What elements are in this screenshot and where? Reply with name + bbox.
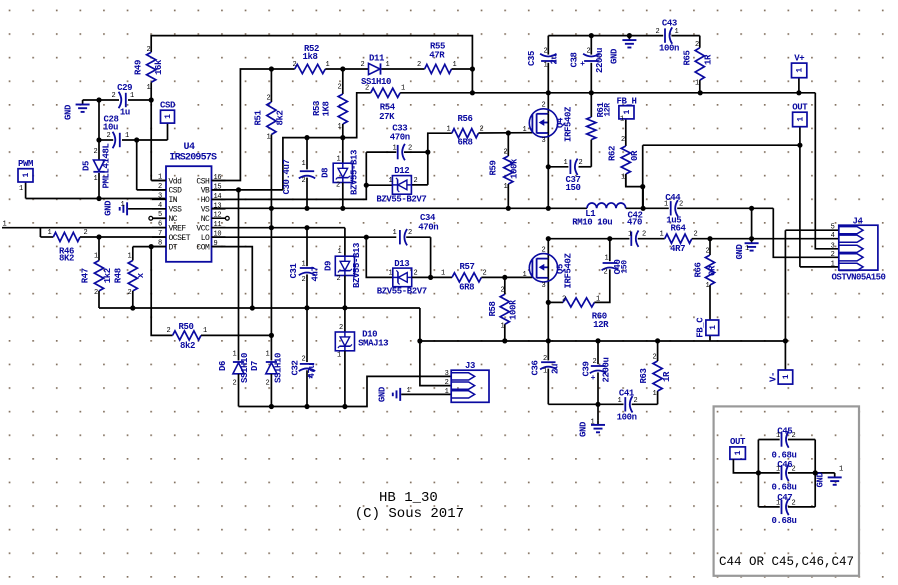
svg-text:2: 2 [112, 92, 116, 100]
svg-text:2: 2 [233, 380, 237, 388]
svg-text:U4: U4 [183, 142, 195, 153]
svg-text:BZV55-B13: BZV55-B13 [350, 150, 360, 195]
svg-text:LO: LO [201, 234, 210, 243]
svg-text:12R: 12R [604, 103, 613, 117]
svg-text:1: 1 [621, 174, 625, 182]
svg-text:2: 2 [361, 61, 365, 69]
svg-text:D6: D6 [218, 361, 228, 371]
svg-text:1: 1 [19, 185, 23, 193]
svg-text:2: 2 [337, 275, 341, 283]
svg-text:2: 2 [414, 269, 418, 277]
svg-text:R50: R50 [178, 322, 193, 332]
svg-text:2: 2 [365, 85, 369, 93]
svg-text:1: 1 [745, 245, 749, 253]
svg-text:R48: R48 [114, 268, 124, 283]
svg-text:1: 1 [734, 450, 743, 455]
svg-text:3: 3 [831, 242, 835, 250]
svg-text:1: 1 [121, 201, 125, 209]
svg-text:J4: J4 [852, 216, 863, 226]
svg-text:2: 2 [695, 41, 699, 49]
svg-text:4u7: 4u7 [311, 266, 321, 281]
svg-text:1: 1 [596, 295, 600, 303]
svg-text:DT: DT [169, 243, 178, 252]
svg-text:HO: HO [201, 196, 210, 205]
svg-text:1: 1 [389, 269, 393, 277]
svg-text:R51: R51 [254, 110, 264, 126]
svg-text:NC: NC [201, 215, 210, 224]
svg-text:1: 1 [147, 84, 151, 92]
svg-text:GND: GND [378, 386, 388, 402]
svg-text:GND: GND [610, 48, 620, 64]
svg-text:D8: D8 [320, 168, 330, 178]
svg-text:2: 2 [302, 177, 306, 185]
svg-text:2: 2 [679, 200, 683, 208]
svg-text:1: 1 [389, 177, 393, 185]
svg-text:1: 1 [393, 144, 397, 152]
svg-text:OUT: OUT [730, 437, 746, 447]
svg-text:2: 2 [445, 379, 449, 387]
svg-text:D5: D5 [82, 161, 92, 171]
svg-text:1: 1 [796, 117, 805, 122]
svg-text:+: + [580, 60, 585, 69]
svg-text:8k2: 8k2 [180, 341, 195, 351]
svg-text:VB: VB [201, 187, 210, 196]
svg-text:C34: C34 [420, 213, 436, 223]
svg-text:2: 2 [501, 287, 505, 295]
svg-text:1: 1 [776, 465, 780, 473]
svg-text:2: 2 [642, 231, 646, 239]
svg-text:1: 1 [338, 248, 342, 256]
svg-text:HB 1_30: HB 1_30 [379, 490, 438, 506]
svg-text:6R8: 6R8 [459, 283, 474, 293]
svg-text:1: 1 [267, 134, 271, 142]
svg-text:VSS: VSS [169, 206, 183, 215]
svg-text:2: 2 [302, 356, 306, 364]
svg-text:R65: R65 [683, 50, 693, 65]
svg-text:5: 5 [831, 224, 835, 232]
svg-text:4: 4 [158, 202, 162, 210]
svg-text:3: 3 [542, 137, 546, 145]
svg-text:R66: R66 [694, 262, 704, 277]
svg-text:1k2: 1k2 [103, 268, 113, 283]
svg-text:1: 1 [441, 269, 445, 277]
svg-text:13: 13 [214, 202, 222, 210]
svg-text:1: 1 [706, 282, 710, 290]
svg-text:2: 2 [831, 251, 835, 259]
svg-text:2: 2 [593, 358, 597, 366]
svg-text:2: 2 [544, 48, 548, 56]
svg-text:C38: C38 [570, 52, 580, 67]
svg-text:2: 2 [293, 61, 297, 69]
svg-text:R56: R56 [457, 114, 472, 124]
svg-text:C36: C36 [531, 360, 541, 375]
svg-text:1: 1 [447, 125, 451, 133]
svg-text:2: 2 [84, 229, 88, 237]
svg-text:1: 1 [776, 499, 780, 507]
svg-text:1: 1 [266, 351, 270, 359]
svg-text:OSTVN05A150: OSTVN05A150 [832, 273, 886, 283]
svg-text:1: 1 [523, 271, 527, 279]
svg-text:2: 2 [414, 177, 418, 185]
svg-text:1: 1 [544, 62, 548, 70]
svg-text:3: 3 [158, 192, 162, 200]
svg-text:8k2: 8k2 [276, 110, 286, 125]
svg-text:0.68u: 0.68u [771, 516, 796, 526]
svg-text:GND: GND [104, 200, 114, 216]
svg-text:BZV55-B2V7: BZV55-B2V7 [376, 194, 426, 204]
svg-text:7: 7 [158, 230, 162, 238]
svg-text:1: 1 [94, 253, 98, 261]
svg-text:2: 2 [339, 324, 343, 332]
svg-text:0.68u: 0.68u [771, 482, 796, 492]
svg-text:D9: D9 [324, 261, 334, 271]
svg-text:IN: IN [169, 196, 178, 205]
svg-text:6R8: 6R8 [457, 137, 472, 147]
svg-text:2: 2 [483, 269, 487, 277]
svg-text:2: 2 [267, 95, 271, 103]
svg-text:1: 1 [128, 253, 132, 261]
svg-text:1: 1 [782, 374, 791, 379]
svg-text:2: 2 [302, 276, 306, 284]
svg-text:1: 1 [302, 160, 306, 168]
svg-text:CSD: CSD [160, 101, 176, 111]
svg-text:1R: 1R [704, 54, 714, 65]
svg-text:2: 2 [147, 46, 151, 54]
svg-text:1: 1 [776, 432, 780, 440]
svg-text:C30.4u7: C30.4u7 [282, 159, 292, 194]
svg-text:BZV55-B13: BZV55-B13 [352, 243, 362, 288]
svg-text:2: 2 [562, 295, 566, 303]
svg-text:OUT: OUT [792, 103, 808, 113]
svg-text:15: 15 [214, 183, 222, 191]
svg-text:SMAJ13: SMAJ13 [358, 339, 388, 349]
svg-text:1: 1 [839, 466, 843, 474]
svg-text:2: 2 [792, 432, 796, 440]
svg-text:C31: C31 [289, 263, 299, 279]
svg-text:PMLL4148L: PMLL4148L [102, 143, 112, 188]
svg-text:2: 2 [543, 355, 547, 363]
svg-text:2: 2 [480, 125, 484, 133]
svg-text:2: 2 [128, 289, 132, 297]
svg-text:6: 6 [158, 221, 162, 229]
svg-text:470n: 470n [418, 223, 438, 233]
svg-text:1: 1 [831, 260, 835, 268]
svg-text:2: 2 [621, 136, 625, 144]
svg-text:GND: GND [579, 421, 589, 437]
svg-text:27K: 27K [379, 112, 395, 122]
svg-text:470n: 470n [390, 133, 410, 143]
svg-text:1: 1 [22, 173, 31, 178]
svg-text:2: 2 [266, 380, 270, 388]
svg-text:COM: COM [196, 243, 210, 252]
svg-text:D7: D7 [250, 361, 260, 371]
svg-text:1: 1 [796, 68, 805, 73]
svg-text:C35: C35 [527, 51, 537, 66]
svg-text:100n: 100n [659, 44, 679, 54]
svg-text:1: 1 [3, 221, 7, 229]
svg-text:2: 2 [792, 499, 796, 507]
svg-text:1: 1 [338, 123, 342, 131]
svg-text:D11: D11 [369, 54, 385, 64]
svg-text:CSD: CSD [169, 187, 183, 196]
svg-text:1: 1 [326, 61, 330, 69]
svg-text:0R: 0R [630, 150, 640, 161]
svg-text:VS: VS [201, 206, 210, 215]
svg-text:1: 1 [620, 116, 624, 124]
svg-text:2: 2 [94, 148, 98, 156]
svg-text:14: 14 [214, 193, 222, 201]
svg-text:1: 1 [125, 132, 129, 140]
svg-text:16: 16 [214, 174, 222, 182]
svg-text:CSH: CSH [196, 177, 210, 186]
svg-text:2: 2 [542, 246, 546, 254]
svg-text:1: 1 [564, 159, 568, 167]
svg-text:IRS20957S: IRS20957S [169, 153, 217, 164]
svg-text:2200u: 2200u [595, 48, 605, 73]
svg-text:C43: C43 [662, 19, 677, 29]
svg-text:2: 2 [94, 289, 98, 297]
svg-text:R58: R58 [488, 301, 498, 316]
svg-text:1: 1 [407, 387, 411, 395]
svg-text:VREF: VREF [169, 224, 187, 233]
svg-text:D13: D13 [394, 259, 409, 269]
svg-text:IRF540Z: IRF540Z [564, 107, 574, 142]
svg-text:2: 2 [694, 231, 698, 239]
svg-text:1: 1 [664, 200, 668, 208]
svg-text:R62: R62 [608, 146, 618, 161]
svg-text:1: 1 [337, 352, 341, 360]
svg-text:2: 2 [792, 465, 796, 473]
svg-text:4: 4 [831, 232, 835, 240]
svg-text:2: 2 [542, 102, 546, 110]
svg-text:5: 5 [158, 211, 162, 219]
svg-text:1K8: 1K8 [322, 101, 332, 116]
svg-text:1: 1 [675, 28, 679, 36]
svg-text:1: 1 [501, 323, 505, 331]
svg-text:2: 2 [338, 84, 342, 92]
svg-text:1: 1 [158, 174, 162, 182]
svg-text:1: 1 [653, 390, 657, 398]
svg-text:2: 2 [653, 354, 657, 362]
svg-text:100n: 100n [617, 413, 637, 423]
svg-text:1: 1 [605, 255, 609, 263]
svg-text:470: 470 [627, 218, 642, 228]
svg-text:NC: NC [169, 215, 178, 224]
svg-text:1u: 1u [120, 107, 130, 117]
svg-text:1: 1 [386, 61, 390, 69]
svg-text:1: 1 [164, 114, 173, 119]
svg-text:11: 11 [214, 221, 222, 229]
svg-text:2u: 2u [549, 54, 559, 64]
svg-text:VCC: VCC [196, 224, 210, 233]
svg-text:R47: R47 [80, 268, 90, 283]
svg-text:100k: 100k [510, 158, 520, 179]
svg-text:OCSET: OCSET [169, 234, 191, 243]
svg-text:1: 1 [453, 61, 457, 69]
svg-text:1: 1 [130, 92, 134, 100]
svg-text:1: 1 [618, 397, 622, 405]
svg-text:1: 1 [94, 175, 98, 183]
svg-text:1R: 1R [662, 371, 672, 382]
svg-text:2: 2 [579, 159, 583, 167]
svg-text:1: 1 [203, 327, 207, 335]
svg-text:4R7: 4R7 [670, 244, 685, 254]
svg-text:GND: GND [735, 244, 745, 260]
svg-text:2: 2 [656, 28, 660, 36]
svg-text:1: 1 [393, 229, 397, 237]
svg-text:2: 2 [504, 149, 508, 157]
svg-text:2: 2 [167, 327, 171, 335]
svg-text:1: 1 [709, 325, 718, 330]
svg-text:1: 1 [233, 351, 237, 359]
svg-text:1: 1 [695, 80, 699, 88]
svg-text:1: 1 [543, 368, 547, 376]
svg-text:47R: 47R [429, 51, 445, 61]
svg-text:100k: 100k [509, 299, 519, 320]
svg-text:2200u: 2200u [601, 357, 611, 382]
svg-text:FB_C: FB_C [696, 317, 706, 338]
svg-text:0R: 0R [708, 265, 718, 276]
svg-text:R53: R53 [312, 101, 322, 116]
svg-text:R63: R63 [639, 368, 649, 383]
svg-text:1: 1 [401, 85, 405, 93]
svg-text:1k8: 1k8 [302, 52, 317, 62]
svg-text:10u: 10u [103, 122, 118, 132]
svg-text:(C) Sous 2017: (C) Sous 2017 [355, 506, 464, 522]
svg-text:16k: 16k [154, 59, 164, 75]
svg-text:J3: J3 [465, 361, 475, 371]
svg-text:+: + [307, 373, 312, 382]
svg-text:2: 2 [408, 229, 412, 237]
svg-text:1: 1 [48, 229, 52, 237]
svg-text:C44 OR C45,C46,C47: C44 OR C45,C46,C47 [719, 555, 854, 569]
svg-text:Vdd: Vdd [169, 177, 183, 186]
svg-text:1: 1 [445, 388, 449, 396]
svg-text:R64: R64 [670, 224, 686, 234]
svg-text:2: 2 [417, 61, 421, 69]
svg-text:2: 2 [408, 144, 412, 152]
svg-text:V+: V+ [794, 53, 804, 63]
svg-text:10: 10 [214, 231, 222, 239]
svg-text:1: 1 [302, 261, 306, 269]
svg-text:C32: C32 [291, 360, 301, 375]
svg-text:9: 9 [214, 240, 218, 248]
svg-text:2: 2 [604, 269, 608, 277]
svg-text:1: 1 [337, 156, 341, 164]
svg-text:2: 2 [158, 183, 162, 191]
svg-text:2: 2 [587, 48, 591, 56]
svg-text:BZV55-B2V7: BZV55-B2V7 [377, 286, 427, 296]
svg-text:RM10 10u: RM10 10u [572, 218, 612, 228]
svg-text:1: 1 [660, 231, 664, 239]
svg-text:1: 1 [523, 126, 527, 134]
svg-text:1: 1 [623, 110, 632, 115]
svg-text:150: 150 [620, 260, 629, 274]
svg-text:2: 2 [107, 132, 111, 140]
svg-text:1: 1 [591, 419, 595, 427]
svg-text:2: 2 [706, 248, 710, 256]
svg-text:1: 1 [628, 231, 632, 239]
svg-text:IRF540Z: IRF540Z [564, 253, 574, 288]
svg-text:FB_H: FB_H [616, 96, 636, 106]
svg-text:D12: D12 [394, 166, 409, 176]
svg-text:GND: GND [64, 104, 74, 120]
svg-text:3: 3 [542, 282, 546, 290]
svg-text:V-: V- [769, 372, 779, 382]
svg-text:2: 2 [336, 182, 340, 190]
svg-text:1: 1 [504, 183, 508, 191]
svg-text:8K2: 8K2 [59, 254, 74, 264]
svg-text:SS1H10: SS1H10 [240, 353, 250, 383]
svg-text:3: 3 [445, 370, 449, 378]
svg-text:SS1H10: SS1H10 [273, 353, 283, 383]
svg-text:R57: R57 [459, 262, 474, 272]
svg-text:R54: R54 [380, 103, 396, 113]
svg-text:12R: 12R [593, 320, 609, 330]
svg-text:12: 12 [214, 212, 222, 220]
svg-text:R49: R49 [134, 60, 144, 75]
svg-text:2u: 2u [551, 364, 561, 374]
svg-text:150: 150 [565, 183, 580, 193]
svg-text:0.68u: 0.68u [771, 451, 796, 461]
svg-text:2: 2 [634, 397, 638, 405]
svg-text:8: 8 [158, 240, 162, 248]
svg-text:R59: R59 [489, 160, 499, 175]
svg-text:+: + [591, 374, 596, 383]
svg-text:PWM: PWM [18, 159, 33, 169]
